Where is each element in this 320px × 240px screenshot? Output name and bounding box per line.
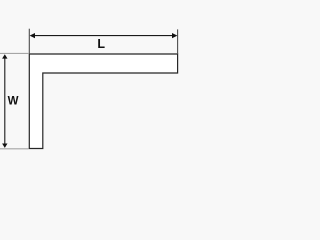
svg-text:L: L xyxy=(97,37,105,51)
extension line top (for W) xyxy=(0,52,29,54)
extension line right (for L) xyxy=(177,29,179,54)
extension line left (for L) xyxy=(28,29,30,54)
L-shaped bar outline xyxy=(29,54,177,149)
W dimension line xyxy=(4,57,6,145)
L arrowhead left xyxy=(30,33,35,38)
W arrowhead bottom xyxy=(2,144,7,148)
L dimension line xyxy=(34,35,174,37)
extension line bottom (for W) xyxy=(0,148,29,150)
W arrowhead top xyxy=(2,54,7,58)
L arrowhead right xyxy=(172,33,177,38)
svg-text:W: W xyxy=(8,95,19,107)
